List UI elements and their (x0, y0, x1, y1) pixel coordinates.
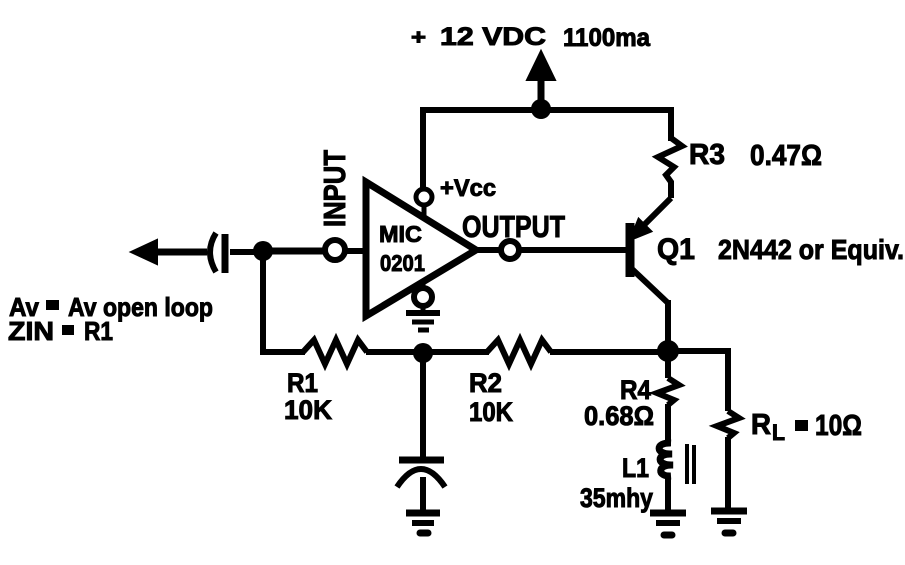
junction dot feedback node (413, 343, 433, 363)
pin output circle (476, 241, 519, 259)
svg-text:R2: R2 (469, 368, 502, 398)
pin +Vcc circle (416, 175, 496, 217)
ground under op-amp (406, 305, 440, 330)
resistor R3 (658, 138, 822, 198)
resistor RL (717, 409, 862, 509)
pin ground circle of op-amp (414, 282, 432, 306)
svg-text:10K: 10K (284, 395, 332, 425)
svg-text:R3: R3 (689, 139, 725, 171)
power arrow up (527, 51, 555, 110)
resistor R4 (584, 351, 679, 446)
ground under C2 (406, 513, 440, 533)
label Av equations (8, 292, 213, 346)
junction dot input node (253, 241, 273, 261)
capacitor C2 (bypass, curved plate bottom) (397, 460, 445, 511)
wire emitter node to RL (668, 351, 728, 411)
wire feedback node down to C2 (420, 353, 426, 457)
svg-text:10K: 10K (469, 397, 513, 427)
wire top rail (423, 110, 671, 192)
transistor Q1 (630, 198, 904, 348)
svg-text:MIC: MIC (379, 221, 422, 247)
op-amp U1 MIC0201 (366, 182, 476, 316)
svg-text:R: R (751, 409, 771, 441)
pin input circle (325, 240, 366, 260)
capacitor C1 (input, curved plate left) (210, 233, 255, 273)
svg-text:L1: L1 (622, 453, 649, 483)
svg-text:R1: R1 (287, 368, 318, 398)
svg-text:35mhy: 35mhy (580, 483, 653, 513)
wire output to Q1 base (519, 247, 627, 253)
svg-text:Q1: Q1 (657, 233, 695, 266)
resistor R2 (469, 340, 551, 427)
svg-text:R1: R1 (84, 316, 113, 346)
junction dot top (531, 99, 551, 119)
svg-text:INPUT: INPUT (317, 150, 352, 227)
ground under L1 (650, 513, 686, 535)
resistor R1 (284, 340, 367, 425)
svg-text:0.47Ω: 0.47Ω (750, 140, 822, 172)
wire R1 to R2 (366, 349, 489, 355)
svg-text:+: + (411, 26, 426, 49)
ground under RL (711, 511, 747, 533)
svg-text:L: L (772, 420, 785, 445)
junction dot emitter node (657, 340, 679, 362)
inductor L1 (580, 443, 694, 513)
input arrow left (131, 240, 207, 264)
svg-text:2N442 or Equiv.: 2N442 or Equiv. (718, 234, 904, 265)
svg-text:10Ω: 10Ω (815, 410, 862, 442)
svg-text:1100ma: 1100ma (563, 24, 651, 52)
wire R2 to output node (550, 349, 668, 355)
svg-text:+Vcc: +Vcc (440, 175, 496, 202)
svg-text:ZIN: ZIN (8, 316, 54, 346)
svg-text:0201: 0201 (380, 250, 425, 276)
svg-text:0.68Ω: 0.68Ω (584, 401, 654, 431)
wire input node down to feedback rail (263, 251, 305, 352)
wire junction to input pin (263, 248, 326, 255)
svg-text:12 VDC: 12 VDC (440, 23, 546, 51)
